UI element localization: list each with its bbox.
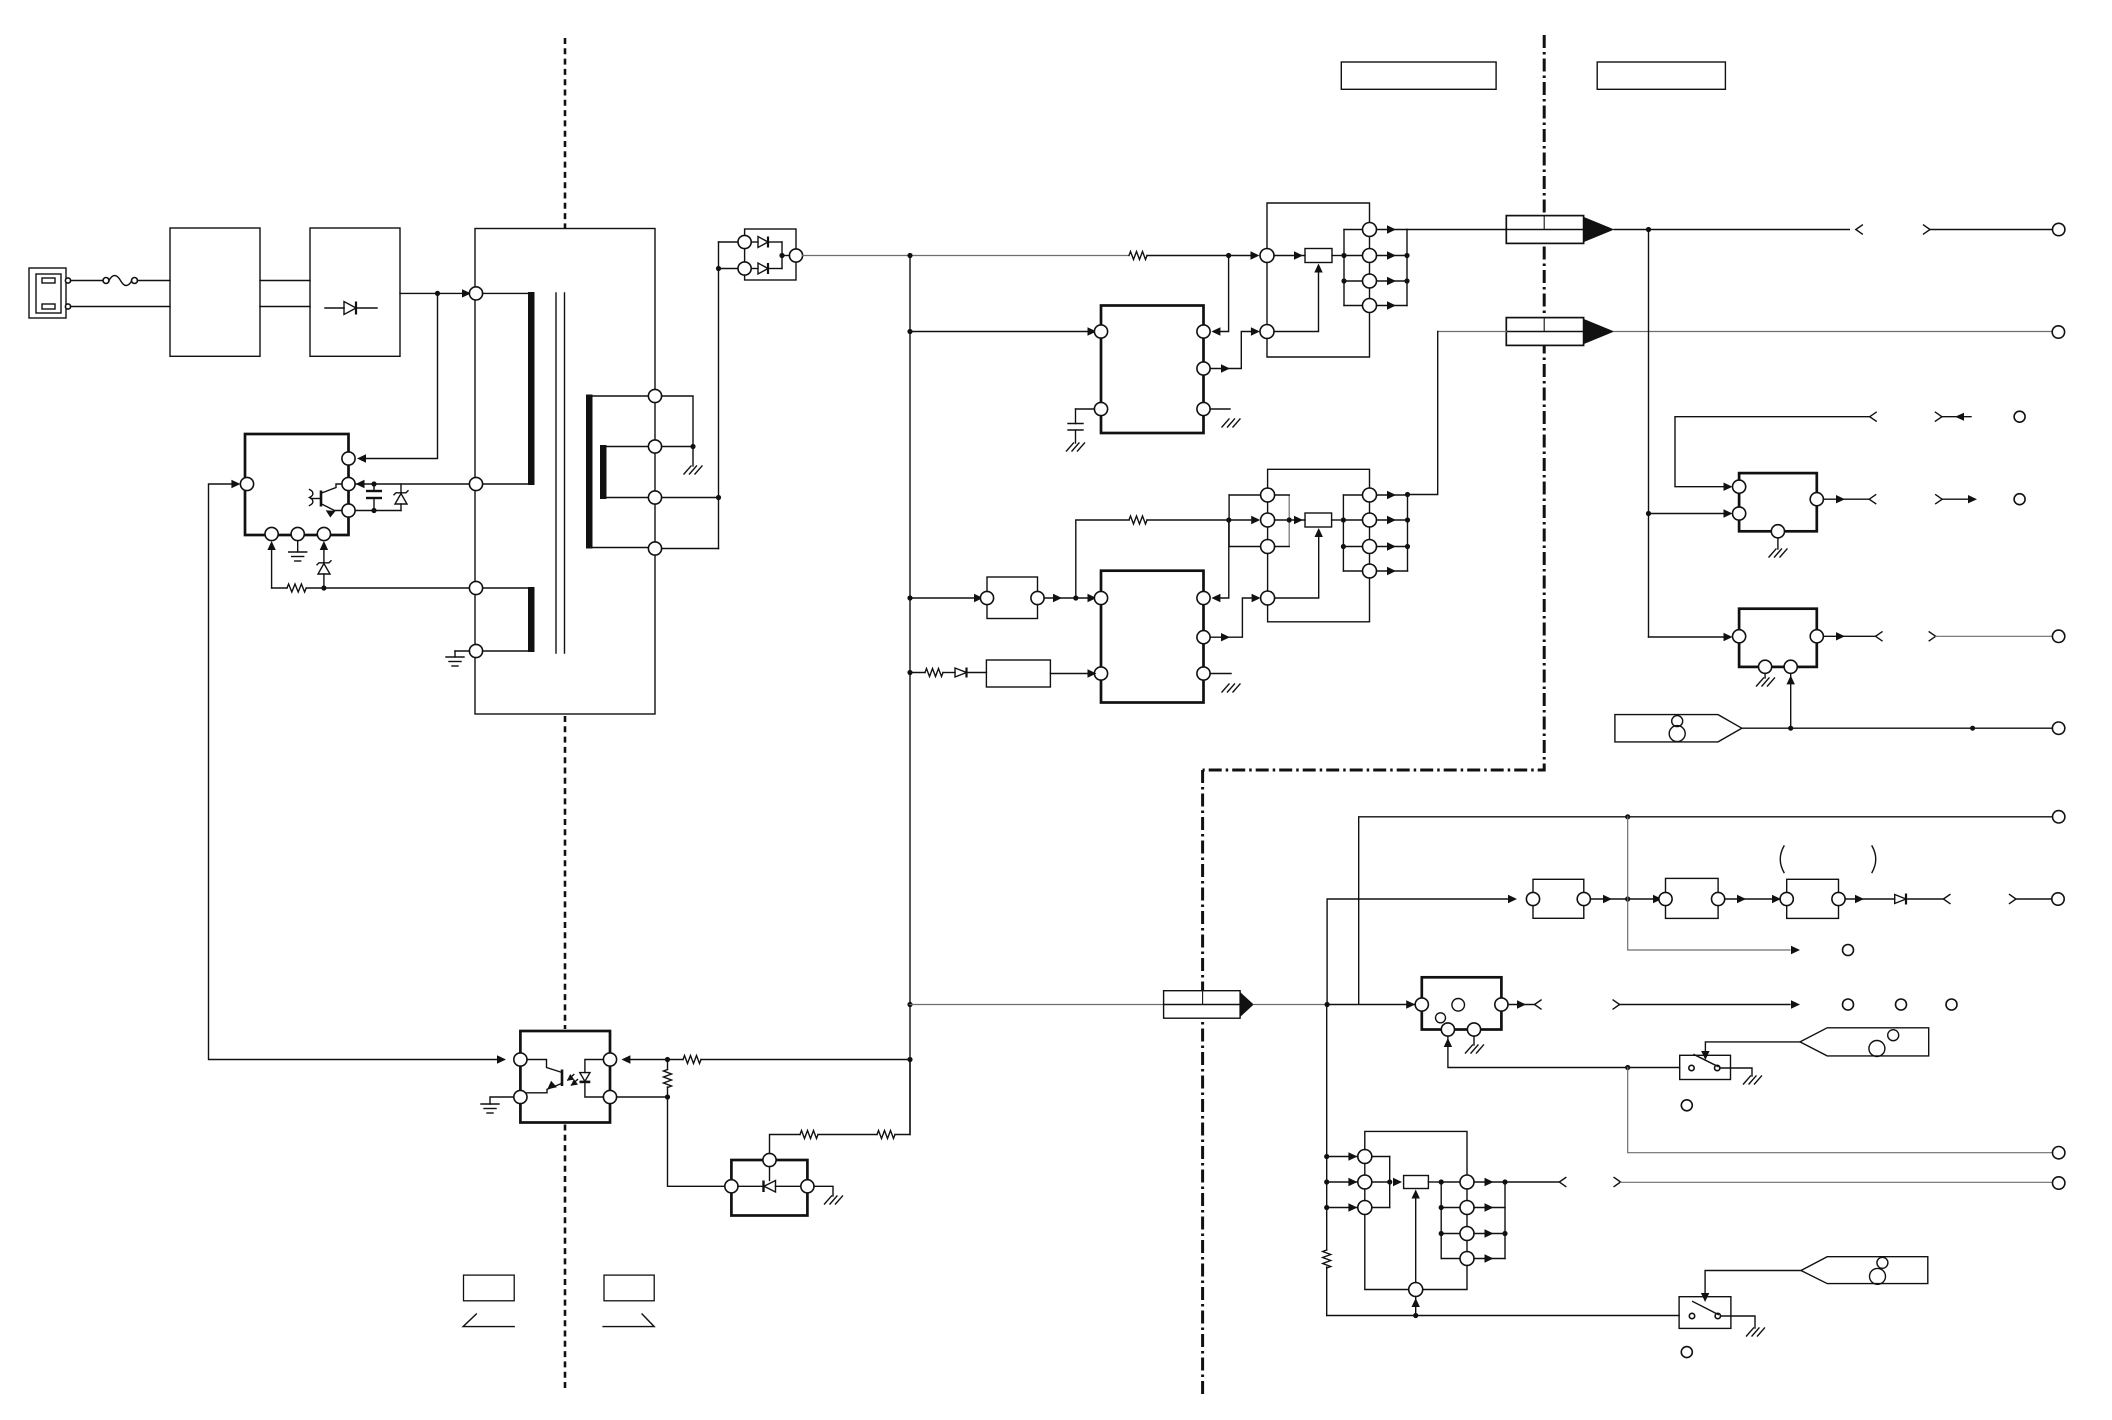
pin IC2 gnd xyxy=(1197,667,1210,680)
wire CN2 output riser xyxy=(1408,332,1438,495)
chassis ground IC2 xyxy=(1222,684,1240,692)
pin PC1 c xyxy=(514,1053,527,1066)
node row520 xyxy=(1226,517,1231,522)
wire CN2-B to R6 xyxy=(1275,519,1305,521)
pin IC3 source xyxy=(342,504,355,517)
break chevron row636 right xyxy=(1929,632,1936,641)
wire CN3 top loop xyxy=(1365,1131,1467,1174)
break chevron row1182 right xyxy=(1614,1178,1621,1187)
pin IC4 in1 xyxy=(1733,480,1746,493)
arrow JP4 out xyxy=(1855,895,1864,903)
wire to regB in xyxy=(1649,636,1728,638)
node bus row1059 xyxy=(907,1057,912,1062)
arrow mid2 xyxy=(1772,895,1781,903)
wire R4 out xyxy=(1332,255,1344,257)
wire JP2 out xyxy=(1590,898,1659,900)
arrow into T1 pin1 xyxy=(462,289,471,297)
wire bus to JP1 xyxy=(910,597,980,599)
wire R6 out xyxy=(1332,519,1344,521)
break chevron row1004 left xyxy=(1535,1000,1542,1009)
node CN3-D feed xyxy=(1413,1313,1418,1318)
boundary dash-dot main xyxy=(1203,35,1545,770)
wire startup drop xyxy=(364,293,438,458)
arrow into IC2 ctl xyxy=(1211,594,1220,602)
wire sec pin6 to gnd xyxy=(662,446,693,448)
wire gray drop row1152 xyxy=(1628,1068,2053,1153)
terminal circle row636 xyxy=(2052,630,2064,642)
IC2 regulator box xyxy=(1101,571,1204,703)
label box top1 xyxy=(1341,62,1496,89)
pin IC2 ctl xyxy=(1197,591,1210,604)
wire row899 riser xyxy=(1327,899,1510,1005)
wire IC1 ctl feed xyxy=(1216,256,1229,332)
wire CN3 feed vertical xyxy=(1326,1005,1328,1251)
node CN3 row2 xyxy=(1324,1179,1329,1184)
resistor R6 box xyxy=(1305,513,1332,527)
node R13 out xyxy=(1439,1179,1444,1184)
parenthesis right xyxy=(1872,846,1876,873)
resistor R11 xyxy=(877,1060,910,1139)
node J1 branch xyxy=(1646,227,1651,232)
wire CN3 stub1 xyxy=(1327,1156,1358,1158)
wire CN2 top loop xyxy=(1268,469,1370,488)
pin IC5 out xyxy=(1810,630,1823,643)
pin T1-2 xyxy=(469,477,482,490)
wire PC1 k join xyxy=(617,1096,668,1098)
pin IC2 in xyxy=(1094,591,1107,604)
zener D3 xyxy=(317,548,331,588)
pin IC7 gnd2 xyxy=(1467,1023,1480,1036)
wire plug line xyxy=(71,280,103,282)
wire drain row xyxy=(355,483,469,485)
flag pointer FL1 xyxy=(1800,1028,1929,1057)
circle CN3-D xyxy=(1409,1283,1423,1297)
pin T1-1 xyxy=(469,287,482,300)
wire row899 terminal xyxy=(2016,898,2052,900)
wire D feed riser xyxy=(1415,1297,1417,1316)
resistor R8 xyxy=(683,1056,910,1064)
terminal circle row817 xyxy=(2053,811,2065,823)
arrow into IC3 fb xyxy=(231,480,240,488)
connector CN3 left pins xyxy=(1358,1150,1372,1215)
node opto bias xyxy=(665,1057,670,1062)
wire IC1 out to CN1-L2 xyxy=(1210,332,1252,369)
lone circle SW1 xyxy=(1681,1100,1692,1111)
node R4 out xyxy=(1341,253,1346,258)
block rectifier D xyxy=(310,228,400,356)
pin IC3 fb xyxy=(240,477,253,490)
break chevron row899 left xyxy=(1943,895,1950,904)
pin IC5 gnd xyxy=(1759,660,1772,673)
label box top2 xyxy=(1597,62,1725,89)
node bus row598 xyxy=(907,595,912,600)
chassis ground C2 xyxy=(1067,443,1085,451)
wire CN3-D riser xyxy=(1415,1192,1417,1283)
diode IC6 internal xyxy=(738,1167,801,1192)
wire IC2 gnd xyxy=(1210,673,1231,675)
arrow down to SW2 xyxy=(1701,1293,1709,1302)
pin T1-5 xyxy=(648,389,661,402)
break chevron row1004 right xyxy=(1613,1000,1620,1009)
connector CN1 left pins xyxy=(1260,249,1274,339)
arrow up into CN3-D xyxy=(1412,1298,1420,1307)
arrow into IC1 in xyxy=(1088,327,1097,335)
wire bus to J3 gray xyxy=(910,1004,1164,1006)
wire CN1 top loop xyxy=(1267,203,1370,249)
node main rail branch xyxy=(907,253,912,258)
wire IC4 out xyxy=(1823,498,1869,500)
pin IC4 in2 xyxy=(1733,507,1746,520)
arrow into JP2 xyxy=(1508,895,1517,903)
parenthesis left xyxy=(1780,846,1784,873)
label box bottom2 xyxy=(604,1275,654,1301)
wire CN2-D to R6 xyxy=(1275,531,1319,599)
arrow into JP3 xyxy=(1653,895,1662,903)
break chevron row499 left xyxy=(1869,495,1876,504)
wire CN1-L2 to R4 xyxy=(1274,266,1319,332)
node diode anode join xyxy=(716,266,721,271)
wire flag3 to terminal xyxy=(1742,727,2053,729)
arrow into R6 xyxy=(1294,516,1303,524)
arrow into IC3 bottom1 xyxy=(267,541,275,550)
connector CN1 right pins xyxy=(1363,223,1377,313)
transistor Q1 internal xyxy=(310,484,342,518)
wire J2 in gray xyxy=(1438,331,1507,333)
wire J2 out gray xyxy=(1614,331,2052,333)
pin T1-7 xyxy=(648,491,661,504)
arrow row416 back xyxy=(1955,413,1964,421)
IC3 control IC box xyxy=(245,434,349,535)
bracket CN2 left-right xyxy=(1275,495,1290,547)
bracket CN2 right-left xyxy=(1341,495,1363,571)
wires CN1 outputs xyxy=(1377,225,1410,309)
wire CN2-D bottom loop xyxy=(1268,578,1370,622)
wires CN2 outputs xyxy=(1377,491,1411,575)
arrow up into IC7 gnd1 xyxy=(1444,1038,1452,1047)
resistor R13 box xyxy=(1404,1176,1429,1189)
wire JP1 out xyxy=(1044,597,1092,599)
arrow IC4 out xyxy=(1836,495,1845,503)
arrow into R13 xyxy=(1393,1178,1402,1186)
arrow JP1 out xyxy=(1053,594,1062,602)
resistor R3 xyxy=(1129,252,1252,260)
node row1067 xyxy=(1625,1065,1630,1070)
pin IC1 cap xyxy=(1094,402,1107,415)
pin IC2 out xyxy=(1197,631,1210,644)
wire sec pin5 to gnd bus xyxy=(662,396,693,447)
jumper JP2 xyxy=(1526,879,1590,918)
pin T1-4 xyxy=(469,644,482,657)
shunt reg IC6 box xyxy=(731,1160,807,1216)
connector CN3 right pins xyxy=(1460,1175,1474,1266)
chassis ground sec xyxy=(684,447,702,475)
wire CN2 ctl drop xyxy=(1216,520,1229,598)
pin PC1 e xyxy=(514,1090,527,1103)
wire row817 xyxy=(1359,817,2053,1004)
arrow row950 xyxy=(1791,946,1800,954)
wire to terminal xyxy=(1930,229,2052,231)
arrow into CN1-L1 xyxy=(1251,251,1260,259)
led PC1 xyxy=(567,1060,603,1098)
arrow row1004 xyxy=(1791,1000,1800,1008)
pin IC1 gnd xyxy=(1197,402,1210,415)
node R9 bottom xyxy=(665,1094,670,1099)
wire IC7 out xyxy=(1508,1004,1535,1006)
arrow into regB xyxy=(1724,633,1733,641)
pin IC5 in xyxy=(1733,630,1746,643)
winding primary lower xyxy=(483,587,535,652)
terminal circle row416 xyxy=(2014,411,2025,422)
pin IC7 in xyxy=(1415,998,1428,1011)
wire J1 out xyxy=(1614,229,1849,231)
resistor R4 box xyxy=(1305,249,1332,263)
phototransistor PC1 xyxy=(527,1060,562,1093)
wire anode top xyxy=(719,241,739,243)
wire IC2 out riser xyxy=(1210,598,1253,637)
pin IC4 gnd xyxy=(1771,525,1784,538)
connector J1 xyxy=(1506,216,1614,244)
bracket CN3 left-right xyxy=(1372,1157,1392,1208)
wire row1004 fragment xyxy=(1620,1004,1790,1006)
circle IC7 inner2 xyxy=(1436,1013,1446,1023)
circle IC7 inner1 xyxy=(1452,999,1465,1012)
wire IC7 gnd1 to switch row xyxy=(1448,1036,1680,1067)
winding secondary main xyxy=(586,395,648,549)
lone circle row1004 b xyxy=(1896,999,1907,1010)
ground PC1 e xyxy=(481,1097,514,1113)
wire fragment row499 xyxy=(1942,498,1968,500)
wire R13 out xyxy=(1428,1181,1441,1183)
node row728 xyxy=(1970,726,1975,731)
node drain-cap xyxy=(371,481,376,486)
pin IC3 vcc xyxy=(342,452,355,465)
node bus row672 xyxy=(907,670,912,675)
wire main rail gray xyxy=(803,255,1129,257)
arrow JP2 out xyxy=(1603,895,1612,903)
pin T1-6 xyxy=(648,440,661,453)
resistor R10 xyxy=(800,1131,877,1139)
label box bottom1 xyxy=(464,1275,515,1301)
node zener-res xyxy=(321,585,326,590)
pin IC7 gnd1 xyxy=(1441,1023,1454,1036)
node row899 xyxy=(1625,896,1630,901)
break chevron row1182 left xyxy=(1559,1178,1566,1187)
lone circle row950 xyxy=(1843,945,1854,956)
wire main bus vertical xyxy=(909,256,911,1135)
wire IC5 ctl riser xyxy=(1790,673,1792,728)
wire k to TL431 xyxy=(668,1097,725,1186)
pin IC3 bottom2 gnd xyxy=(291,527,304,540)
break chevron row416 right xyxy=(1935,412,1942,421)
arrow into IC1 ctl xyxy=(1211,327,1220,335)
wire feedback loop xyxy=(209,484,498,1060)
arrow into R4 xyxy=(1294,251,1303,259)
arrow into IC2 in xyxy=(1088,594,1097,602)
arrow down to SW1 xyxy=(1701,1051,1709,1060)
arrow into IC5 ctl xyxy=(1787,675,1795,684)
wire CN1 to J1 xyxy=(1407,229,1506,231)
node R6 out xyxy=(1341,517,1346,522)
pin IC1 out xyxy=(1197,362,1210,375)
arrow into IC2 en xyxy=(1088,669,1097,677)
arrow mark bottom2 xyxy=(603,1314,654,1327)
node CN3 row3 xyxy=(1324,1205,1329,1210)
node bus ic1 xyxy=(907,329,912,334)
diode D4 xyxy=(955,668,986,678)
wire CN1-L1 to R4 xyxy=(1274,255,1305,257)
chassis ground IC1 xyxy=(1222,419,1240,427)
ground T1-4 xyxy=(446,651,469,666)
transformer T1 box xyxy=(475,229,655,715)
wire flag2 to switch2 xyxy=(1705,1271,1801,1296)
wire plug neutral xyxy=(71,306,170,308)
pin IC1 in xyxy=(1094,325,1107,338)
wire CN1 bottom loop xyxy=(1267,313,1370,357)
switch SW2 xyxy=(1679,1297,1731,1329)
resistor R12 vertical xyxy=(1323,1250,1331,1316)
arrow IC1 out xyxy=(1221,364,1230,372)
resistor R2 xyxy=(272,584,470,592)
fuse F1 xyxy=(103,276,138,286)
bracket CN2 left xyxy=(1229,495,1261,547)
pin IC2 en xyxy=(1094,667,1107,680)
arrow into IC3 bottom3 xyxy=(320,541,328,550)
pin PC1 k xyxy=(603,1090,616,1103)
connector J2 xyxy=(1506,318,1614,346)
break chevron right xyxy=(1924,225,1931,234)
ground IC6 a xyxy=(814,1186,843,1204)
node B+ xyxy=(435,291,440,296)
capacitor C2 xyxy=(1068,409,1094,443)
node CN3 row1 xyxy=(1324,1154,1329,1159)
break chevron row499 right xyxy=(1936,495,1943,504)
regulator IC5 box xyxy=(1739,609,1817,667)
wire to IC1 in xyxy=(910,331,1092,333)
wire gray drop row950 xyxy=(1628,817,1790,950)
arrow IC2 out xyxy=(1221,633,1230,641)
arrow into IC3 drain xyxy=(356,480,365,488)
winding primary upper xyxy=(483,292,535,485)
node bus row1004 xyxy=(907,1002,912,1007)
terminal circle row229 xyxy=(2053,223,2065,235)
IC1 regulator box xyxy=(1101,306,1204,434)
resistor R7 xyxy=(910,669,955,677)
pin IC3 bottom1 xyxy=(265,527,278,540)
arrow into IC3 vcc xyxy=(357,454,366,462)
node CN2-B out xyxy=(1287,517,1292,522)
wire filter to rectifier L xyxy=(260,280,310,282)
wire CN3-D right loop xyxy=(1423,1266,1467,1290)
row416 wire xyxy=(1675,417,1870,487)
lone circle row1004 a xyxy=(1843,999,1854,1010)
AC plug P1 xyxy=(29,268,71,318)
wire source row xyxy=(355,510,401,512)
optocoupler PC1 box xyxy=(520,1031,610,1123)
arrow into JP1 xyxy=(974,594,983,602)
lone circle row1004 c xyxy=(1946,999,1957,1010)
wire J3 out gray xyxy=(1254,1004,1327,1006)
jumper JP1 xyxy=(980,577,1044,619)
wire row636 to terminal gray xyxy=(1936,635,2053,637)
terminal circle row331 xyxy=(2052,326,2064,338)
wire CN3 stub3 xyxy=(1327,1207,1358,1209)
arrow row499 xyxy=(1968,495,1977,503)
flag pointer FL3 xyxy=(1615,715,1742,742)
pin IC6 k xyxy=(725,1180,738,1193)
switch SW1 xyxy=(1680,1055,1731,1080)
pin IC4 out xyxy=(1810,493,1823,506)
pin IC3 drain xyxy=(342,477,355,490)
jumper JP3 xyxy=(1659,878,1725,918)
pin IC6 a xyxy=(801,1180,814,1193)
wire sec pin8 to diode bus xyxy=(662,548,719,550)
arrow mark bottom1 xyxy=(463,1314,514,1327)
wire anode bottom xyxy=(719,268,739,270)
boundary dash-dot lower xyxy=(1201,770,1204,1397)
arrow into IC7 xyxy=(1406,1000,1415,1008)
wire rectifier out xyxy=(400,292,462,294)
break chevron row899 right xyxy=(2010,895,2017,904)
zener D2 xyxy=(394,484,408,511)
wire CN3-D left loop xyxy=(1365,1215,1409,1290)
pin IC5 ctl xyxy=(1784,660,1797,673)
wire bottom1 down xyxy=(271,548,273,588)
wire PC1 a to node xyxy=(630,1059,683,1061)
arrow into PC1 a xyxy=(621,1055,630,1063)
arrow into CN2-B xyxy=(1251,516,1260,524)
regulator IC4 box xyxy=(1739,473,1817,531)
node diode bus tap xyxy=(716,495,721,500)
wire supply branch vertical xyxy=(1648,230,1650,638)
connector J3 xyxy=(1164,991,1254,1019)
connector CN2 right pins xyxy=(1363,488,1377,578)
arrow into regA upper xyxy=(1724,483,1733,491)
lone circle SW2 xyxy=(1681,1347,1692,1358)
diode pack D1 xyxy=(738,229,803,280)
arrow into CN3-L3 xyxy=(1348,1203,1357,1211)
isolation dashed line top xyxy=(564,38,567,228)
arrow up into R6 xyxy=(1315,528,1323,537)
resistor R5 xyxy=(1129,516,1253,524)
pin IC3 bottom3 xyxy=(317,527,330,540)
terminal circle row1152 xyxy=(2053,1147,2065,1159)
wire CN3 stub2 xyxy=(1327,1181,1358,1183)
wire filter to rectifier N xyxy=(260,306,310,308)
ground IC3 xyxy=(289,541,307,561)
wire row1182 terminal gray xyxy=(1621,1181,2053,1183)
wire CN3-D feed xyxy=(1327,1315,1679,1317)
winding secondary tap xyxy=(600,445,648,499)
arrow mid1 xyxy=(1737,895,1746,903)
node sec gnd xyxy=(690,444,695,449)
arrow IC7 out xyxy=(1517,1000,1526,1008)
wire to reg IC7 xyxy=(1327,1004,1415,1006)
node JP1 branch xyxy=(1073,595,1078,600)
wires CN3 outputs xyxy=(1474,1178,1508,1263)
pin T1-8 xyxy=(648,542,661,555)
wire riser to row520 xyxy=(1076,520,1129,598)
wire JP4 out xyxy=(1845,898,1895,900)
node R3 out xyxy=(1226,253,1231,258)
arrow into regA lower xyxy=(1724,509,1733,517)
wire diode bus vertical xyxy=(718,242,720,549)
break chevron left xyxy=(1856,225,1863,234)
pin IC1 ctl xyxy=(1197,325,1210,338)
capacitor C1 xyxy=(366,484,382,511)
wire IC5 out xyxy=(1823,635,1875,637)
arrow into CN2-D xyxy=(1252,594,1261,602)
arrow IC5 out xyxy=(1836,632,1845,640)
